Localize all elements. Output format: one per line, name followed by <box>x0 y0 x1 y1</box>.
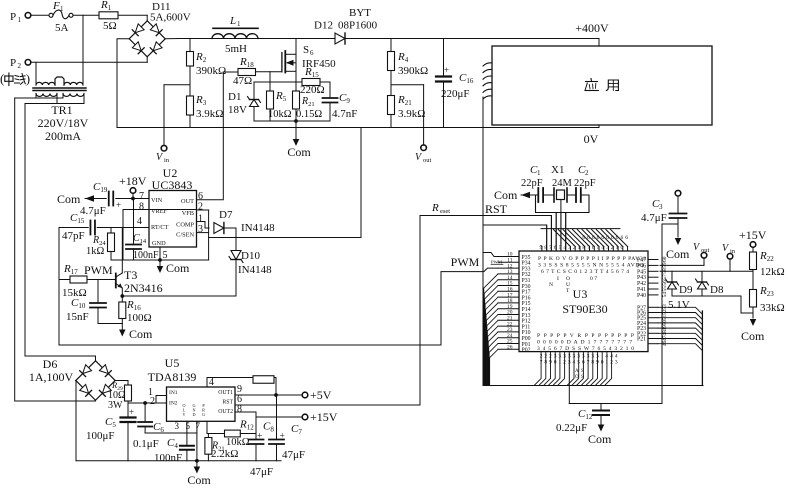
svg-text:33kΩ: 33kΩ <box>760 302 785 314</box>
svg-text:5: 5 <box>186 421 191 431</box>
svg-text:6: 6 <box>611 235 614 241</box>
svg-text:2: 2 <box>198 202 203 213</box>
svg-text:IN4148: IN4148 <box>241 222 275 234</box>
svg-text:ST90E30: ST90E30 <box>562 302 607 316</box>
svg-text:1: 1 <box>18 16 22 24</box>
svg-text:V: V <box>182 412 185 417</box>
svg-text:P P P P P V R P P P P P: P P P P P V R P P P P P P P P <box>537 333 634 339</box>
svg-text:TR1: TR1 <box>51 103 72 117</box>
svg-text:PWM: PWM <box>451 255 480 269</box>
svg-text:P: P <box>10 11 16 23</box>
svg-text:8: 8 <box>237 404 242 415</box>
svg-text:390kΩ: 390kΩ <box>398 65 428 77</box>
svg-text:5.1V: 5.1V <box>668 299 690 311</box>
svg-text:D6: D6 <box>43 357 58 371</box>
svg-text:Com: Com <box>187 473 211 485</box>
svg-text:220V/18V: 220V/18V <box>38 116 89 130</box>
svg-text:4.7μF: 4.7μF <box>80 205 106 217</box>
svg-text:6: 6 <box>592 245 595 251</box>
svg-text:OUT: OUT <box>181 198 194 205</box>
svg-text:3: 3 <box>659 203 663 211</box>
svg-text:3 4 5 6 7 D S S W 7 6 5 4 3 2: 3 4 5 6 7 D S S W 7 6 5 4 3 2 1 0 <box>537 346 634 352</box>
svg-text:C/SEN: C/SEN <box>176 232 194 239</box>
svg-text:0 7: 0 7 <box>590 276 597 282</box>
svg-text:2: 2 <box>18 62 22 70</box>
svg-text:X1: X1 <box>551 164 564 176</box>
svg-text:G: G <box>202 412 205 417</box>
svg-text:eset: eset <box>440 208 450 215</box>
svg-text:+400V: +400V <box>575 21 609 35</box>
svg-text:5: 5 <box>597 245 600 251</box>
svg-text:0.15Ω: 0.15Ω <box>296 109 322 120</box>
svg-text:15nF: 15nF <box>66 311 89 323</box>
svg-text:Com: Com <box>741 329 765 343</box>
svg-text:7: 7 <box>196 421 201 431</box>
svg-text:1: 1 <box>198 214 203 225</box>
svg-text:+15V: +15V <box>739 228 767 242</box>
svg-text:Com: Com <box>666 247 690 261</box>
svg-text:9: 9 <box>540 245 543 251</box>
svg-text:4.7μF: 4.7μF <box>641 212 667 224</box>
svg-text:12kΩ: 12kΩ <box>760 266 785 278</box>
svg-text:24M: 24M <box>552 178 573 189</box>
svg-text:1: 1 <box>537 169 541 177</box>
svg-text:S: S <box>303 44 309 56</box>
svg-text:IN1: IN1 <box>169 390 178 396</box>
svg-text:F: F <box>52 0 60 12</box>
svg-text:2: 2 <box>573 245 576 251</box>
svg-text:100nF: 100nF <box>154 452 182 464</box>
svg-text:10kΩ: 10kΩ <box>226 437 250 448</box>
svg-text:1: 1 <box>616 245 619 251</box>
svg-text:6: 6 <box>198 191 203 202</box>
svg-text:L: L <box>229 15 236 27</box>
svg-text:P02: P02 <box>522 348 531 354</box>
svg-text:7: 7 <box>549 245 552 251</box>
svg-text:18V: 18V <box>228 104 247 116</box>
svg-text:08P1600: 08P1600 <box>338 20 378 32</box>
svg-text:220Ω: 220Ω <box>300 84 325 96</box>
svg-text:2.2kΩ: 2.2kΩ <box>211 448 238 460</box>
svg-text:S: S <box>581 375 584 380</box>
svg-text:A: A <box>575 369 579 374</box>
svg-text:5A,600V: 5A,600V <box>150 11 191 23</box>
svg-text:7: 7 <box>139 191 144 202</box>
svg-text:OUT1: OUT1 <box>218 390 233 396</box>
svg-text:Com: Com <box>494 188 518 202</box>
svg-text:5: 5 <box>559 245 562 251</box>
svg-text:4.7nF: 4.7nF <box>332 108 357 120</box>
svg-text:0V: 0V <box>584 132 599 146</box>
svg-text:N: N <box>549 282 553 288</box>
svg-text:8: 8 <box>139 202 144 213</box>
svg-text:3 3 S S S 8 5 5 5 5 N N 5 5 5: 3 3 S S S 8 5 5 5 5 N N 5 5 5 4 AVDO <box>538 263 644 269</box>
svg-text:4: 4 <box>209 377 214 388</box>
svg-text:in: in <box>164 157 170 164</box>
svg-text:3: 3 <box>568 245 571 251</box>
svg-text:O: O <box>575 375 579 380</box>
svg-text:D8: D8 <box>710 284 724 296</box>
svg-text:TDA8139: TDA8139 <box>148 370 197 384</box>
svg-text:6: 6 <box>601 235 604 241</box>
svg-text:6: 6 <box>616 235 619 241</box>
svg-text:OUT2: OUT2 <box>218 409 233 415</box>
svg-text:200mA: 200mA <box>45 129 81 143</box>
svg-text:RST: RST <box>222 400 233 406</box>
svg-text:0: 0 <box>620 245 623 251</box>
svg-text:D7: D7 <box>219 209 233 221</box>
svg-text:3: 3 <box>606 245 609 251</box>
svg-text:390kΩ: 390kΩ <box>196 65 226 77</box>
svg-text:6: 6 <box>554 245 557 251</box>
svg-text:out: out <box>423 157 432 164</box>
svg-text:47μF: 47μF <box>282 449 305 461</box>
svg-text:3: 3 <box>198 224 203 235</box>
svg-text:6: 6 <box>625 235 628 241</box>
svg-text:6: 6 <box>582 235 585 241</box>
svg-text:T3: T3 <box>124 268 137 282</box>
svg-text:6: 6 <box>592 235 595 241</box>
svg-text:+5V: +5V <box>310 388 332 402</box>
svg-text:IN4148: IN4148 <box>238 264 272 276</box>
svg-text:PWM: PWM <box>84 263 113 277</box>
svg-text:26: 26 <box>507 345 513 351</box>
svg-text:22pF: 22pF <box>574 178 596 189</box>
svg-text:1A,100V: 1A,100V <box>29 370 74 384</box>
svg-text:0 0 0 0 0 D A D 1 7 7 7 7 7: 0 0 0 0 0 D A D 1 7 7 7 7 7 7 7 <box>537 340 632 346</box>
svg-text:S: S <box>581 369 584 374</box>
svg-text:6: 6 <box>597 235 600 241</box>
svg-text:): ) <box>26 71 30 86</box>
svg-text:(: ( <box>0 71 4 86</box>
svg-text:P P K O V O P P P P I I P P: P P K O V O P P P P I I P P P P PAV38 <box>538 256 646 262</box>
svg-text:3.9kΩ: 3.9kΩ <box>196 108 223 120</box>
svg-text:Com: Com <box>287 145 311 159</box>
svg-text:1: 1 <box>237 20 241 28</box>
svg-text:D9: D9 <box>679 284 693 296</box>
svg-text:PWM: PWM <box>491 260 502 265</box>
svg-text:D: D <box>192 412 195 417</box>
svg-text:100nF: 100nF <box>133 250 159 261</box>
svg-text:4: 4 <box>137 216 142 227</box>
svg-text:5A: 5A <box>55 22 69 34</box>
svg-text:1: 1 <box>60 5 64 13</box>
svg-text:7: 7 <box>587 245 590 251</box>
svg-text:in: in <box>730 248 736 255</box>
svg-text:6: 6 <box>606 235 609 241</box>
svg-text:+: + <box>116 200 121 210</box>
svg-text:0.1μF: 0.1μF <box>133 438 159 450</box>
svg-text:0.22μF: 0.22μF <box>556 422 587 434</box>
svg-text:P: P <box>10 57 16 69</box>
svg-text:out: out <box>701 247 710 254</box>
svg-text:VIN: VIN <box>151 197 163 204</box>
svg-text:3: 3 <box>615 360 618 366</box>
svg-text:VFB: VFB <box>182 210 194 217</box>
svg-text:2: 2 <box>611 245 614 251</box>
svg-text:+: + <box>129 407 134 417</box>
svg-text:6: 6 <box>310 49 314 57</box>
svg-text:47Ω: 47Ω <box>233 75 252 87</box>
svg-text:+: + <box>444 65 449 75</box>
svg-text:6: 6 <box>587 235 590 241</box>
svg-text:RST: RST <box>485 202 508 216</box>
svg-text:22pF: 22pF <box>521 178 543 189</box>
svg-text:4: 4 <box>563 245 566 251</box>
svg-text:+18V: +18V <box>119 174 147 188</box>
svg-text:Com: Com <box>166 261 190 275</box>
svg-text:P21: P21 <box>637 337 646 343</box>
svg-text:8: 8 <box>582 245 585 251</box>
svg-text:Com: Com <box>588 432 612 446</box>
svg-text:10kΩ: 10kΩ <box>268 109 292 120</box>
svg-text:P40: P40 <box>637 293 646 299</box>
svg-text:+15V: +15V <box>310 410 338 424</box>
svg-text:3W: 3W <box>108 400 123 411</box>
svg-text:U5: U5 <box>165 356 180 370</box>
svg-text:1kΩ: 1kΩ <box>86 246 105 257</box>
svg-text:+: + <box>280 432 285 442</box>
svg-text:U3: U3 <box>573 287 588 301</box>
svg-text:2N3416: 2N3416 <box>124 281 163 295</box>
svg-text:4: 4 <box>601 245 604 251</box>
svg-text:220μF: 220μF <box>441 88 470 100</box>
svg-text:Com: Com <box>129 327 153 341</box>
svg-text:RT/CT: RT/CT <box>151 224 169 231</box>
svg-text:T: T <box>566 288 570 294</box>
svg-text:3: 3 <box>175 421 180 431</box>
svg-text:5mH: 5mH <box>225 43 247 55</box>
svg-text:100μF: 100μF <box>86 430 115 442</box>
svg-text:COMP: COMP <box>176 222 194 229</box>
svg-text:D12: D12 <box>314 20 333 32</box>
svg-text:R: R <box>431 202 439 214</box>
svg-text:IN2: IN2 <box>169 401 178 407</box>
svg-text:6: 6 <box>620 235 623 241</box>
svg-text:47μF: 47μF <box>250 466 273 478</box>
svg-text:2: 2 <box>585 169 589 177</box>
svg-text:47pF: 47pF <box>62 230 85 242</box>
svg-text:54: 54 <box>662 292 668 298</box>
svg-text:I: I <box>557 276 559 282</box>
svg-text:3.9kΩ: 3.9kΩ <box>398 108 425 120</box>
svg-text:2: 2 <box>150 396 155 407</box>
svg-text:5: 5 <box>163 250 168 261</box>
svg-text:100Ω: 100Ω <box>127 312 152 324</box>
svg-text:GND: GND <box>152 240 166 247</box>
svg-text:D1: D1 <box>228 91 241 103</box>
svg-text:D10: D10 <box>241 250 260 262</box>
svg-text:1: 1 <box>578 245 581 251</box>
svg-text:5Ω: 5Ω <box>103 20 117 32</box>
svg-text:+: + <box>257 432 262 442</box>
svg-text:BYT: BYT <box>349 7 371 19</box>
svg-text:8: 8 <box>544 245 547 251</box>
svg-text:Com: Com <box>57 192 81 206</box>
svg-text:6 7 T C S C 0 1 2 3 T T 4 5 6: 6 7 T C S C 0 1 2 3 T T 4 5 6 7 4 <box>541 269 629 275</box>
